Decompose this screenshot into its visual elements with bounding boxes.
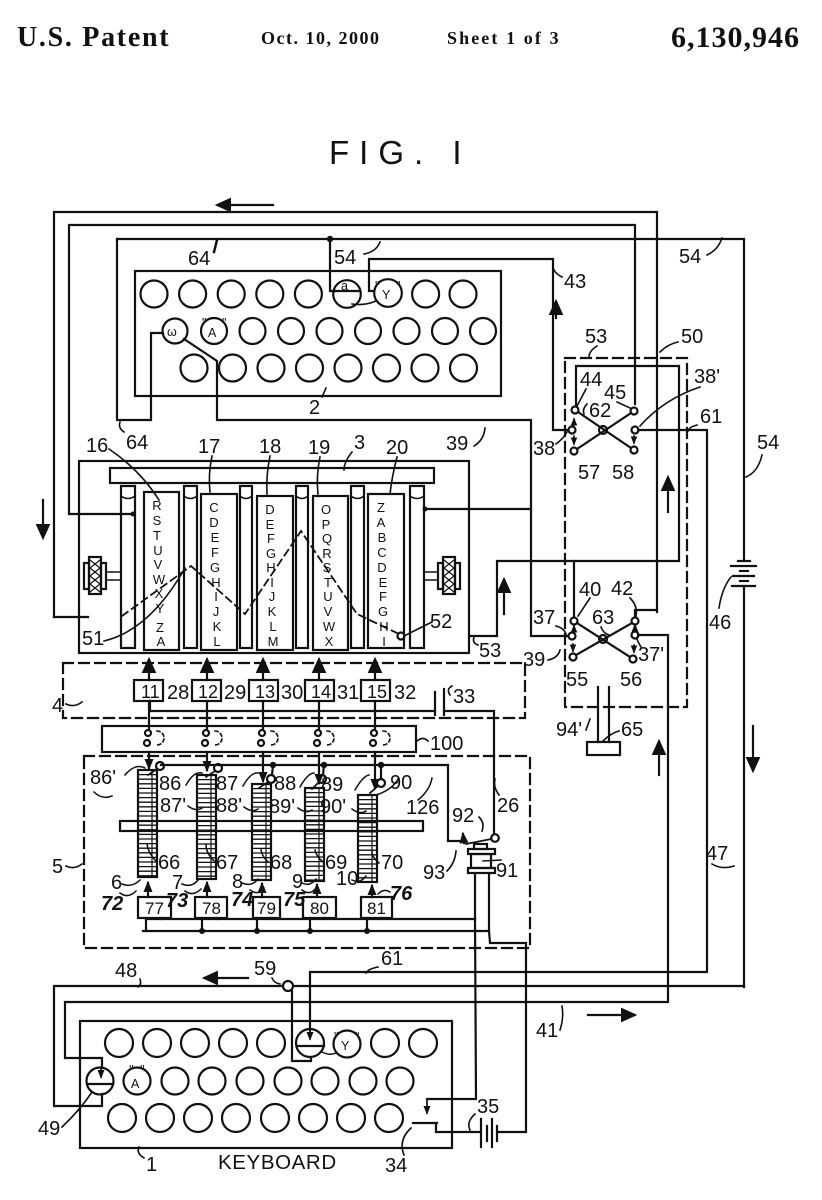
key switch 34 contact bbox=[413, 1122, 437, 1124]
svg-text:Z: Z bbox=[377, 500, 385, 515]
cam wheel 67 bbox=[197, 775, 216, 879]
svg-text:ω: ω bbox=[167, 325, 177, 339]
svg-text:53: 53 bbox=[585, 326, 607, 348]
svg-text:54: 54 bbox=[334, 247, 356, 269]
svg-text:": " bbox=[222, 316, 226, 330]
svg-text:": " bbox=[334, 1030, 338, 1044]
wire: second enclosure box to switch contact 45 bbox=[69, 225, 635, 514]
cam wheel 70 bbox=[358, 795, 377, 882]
key 49 (A key, operated) bbox=[87, 1068, 114, 1095]
label 54 right bbox=[746, 432, 779, 477]
leader squiggles for 6-10 / 72-76 bbox=[122, 876, 390, 894]
svg-text:P: P bbox=[322, 517, 331, 532]
label 50 bbox=[660, 326, 703, 352]
label 61 right bbox=[688, 406, 722, 431]
wire: flow arrow left (keyboard top) bbox=[205, 977, 248, 979]
wire: lower common line bbox=[143, 930, 489, 932]
label 51 bbox=[82, 568, 185, 650]
svg-text:Oct. 10, 2000: Oct. 10, 2000 bbox=[261, 28, 380, 48]
label 5 bbox=[52, 856, 82, 878]
label 40 bbox=[578, 579, 601, 616]
svg-text:M: M bbox=[268, 634, 279, 649]
wire: lamp "a" drop from junction bbox=[330, 239, 335, 291]
svg-text:A: A bbox=[131, 1077, 140, 1091]
svg-text:56: 56 bbox=[620, 669, 642, 691]
svg-text:U: U bbox=[323, 589, 332, 604]
svg-text:E: E bbox=[379, 575, 388, 590]
svg-text:": " bbox=[355, 1030, 359, 1044]
svg-text:H: H bbox=[211, 575, 220, 590]
label 53 lower bbox=[474, 637, 502, 662]
switch 63 bbox=[569, 618, 639, 663]
label 37' bbox=[637, 639, 664, 666]
label 42 bbox=[611, 578, 636, 616]
svg-text:63: 63 bbox=[592, 607, 614, 629]
wire: switch 37' contact to keyboard key 49 bbox=[65, 635, 668, 1068]
svg-text:F: F bbox=[211, 545, 219, 560]
svg-text:5: 5 bbox=[52, 856, 63, 878]
svg-text:44: 44 bbox=[580, 369, 602, 391]
svg-text:68: 68 bbox=[270, 852, 292, 874]
lamps row 1 bbox=[141, 281, 477, 308]
svg-text:7: 7 bbox=[172, 872, 183, 894]
svg-text:U: U bbox=[153, 543, 162, 558]
label 4 bbox=[52, 695, 82, 717]
svg-text:80: 80 bbox=[310, 899, 329, 918]
svg-text:4: 4 bbox=[52, 695, 63, 717]
label 20 bbox=[386, 437, 408, 494]
wire: outer box bottom stub at left bbox=[54, 616, 88, 618]
label 49 bbox=[38, 1092, 92, 1140]
key Y (operated) bbox=[296, 1029, 324, 1057]
svg-text:C: C bbox=[209, 500, 218, 515]
label 41 bbox=[536, 1006, 563, 1042]
label 62 bbox=[583, 400, 611, 422]
svg-text:V: V bbox=[154, 557, 163, 572]
svg-text:38': 38' bbox=[694, 366, 720, 388]
svg-text:G: G bbox=[210, 560, 220, 575]
label 93 bbox=[423, 851, 456, 884]
svg-text:G: G bbox=[266, 546, 276, 561]
label 65 bbox=[603, 719, 643, 741]
svg-text:89: 89 bbox=[321, 774, 343, 796]
label 34 bbox=[385, 1128, 411, 1177]
svg-text:": " bbox=[396, 279, 400, 293]
keys row 1 bbox=[105, 1029, 437, 1057]
dashed box 50 bbox=[565, 358, 687, 707]
svg-text:Q: Q bbox=[322, 531, 332, 546]
svg-text:93: 93 bbox=[423, 862, 445, 884]
svg-text:E: E bbox=[266, 517, 275, 532]
label 61 lower bbox=[366, 948, 403, 973]
rotor assembly box 3 bbox=[79, 461, 469, 653]
axle bar bbox=[120, 821, 423, 831]
wire: second box lower run to rotor 16 contact bbox=[69, 513, 131, 515]
contact box 13 bbox=[249, 680, 278, 702]
label 39 lower bbox=[523, 649, 560, 671]
rotor 18 bbox=[257, 496, 293, 650]
svg-text:42: 42 bbox=[611, 578, 633, 600]
trip box 79 bbox=[253, 897, 280, 918]
svg-text:G: G bbox=[378, 604, 388, 619]
contact box 14 bbox=[305, 680, 334, 702]
right thumb knob bbox=[424, 557, 460, 594]
svg-text:O: O bbox=[321, 502, 331, 517]
svg-text:A: A bbox=[157, 634, 166, 649]
svg-text:K: K bbox=[268, 604, 277, 619]
lamp w (omega) bbox=[163, 319, 188, 344]
svg-text:70: 70 bbox=[381, 852, 403, 874]
svg-text:88: 88 bbox=[274, 773, 296, 795]
lampboard 2 bbox=[135, 271, 501, 396]
svg-text:FIG. I: FIG. I bbox=[329, 134, 472, 171]
svg-text:1: 1 bbox=[146, 1154, 157, 1176]
motor magnet 91 bbox=[468, 844, 501, 931]
wire 48: keyboard common loop bbox=[54, 986, 744, 1106]
svg-text:D: D bbox=[377, 560, 386, 575]
arrows from boxes 11-15 to rotors bbox=[149, 660, 375, 680]
svg-text:A: A bbox=[377, 515, 386, 530]
label 44 bbox=[577, 369, 602, 406]
svg-text:55: 55 bbox=[566, 669, 588, 691]
trip box 81 bbox=[361, 897, 392, 918]
svg-text:76: 76 bbox=[390, 883, 413, 905]
svg-text:31: 31 bbox=[337, 682, 359, 704]
magnet contact 92 bbox=[463, 834, 499, 844]
svg-text:U.S. Patent: U.S. Patent bbox=[17, 22, 170, 53]
keyboard box 1 bbox=[80, 1021, 452, 1148]
wire: up arrow beside bbox=[658, 742, 660, 775]
rotor 20 bbox=[368, 494, 404, 649]
wire: curl from node to Y-key drop bbox=[292, 991, 311, 1061]
wire 54: bus line from lamp panel to right side battery drop bbox=[117, 239, 744, 561]
svg-text:38: 38 bbox=[533, 438, 555, 460]
svg-text:3: 3 bbox=[354, 432, 365, 454]
svg-text:D: D bbox=[209, 515, 218, 530]
svg-text:49: 49 bbox=[38, 1118, 60, 1140]
svg-text:C: C bbox=[377, 545, 386, 560]
svg-text:78: 78 bbox=[202, 899, 221, 918]
switch 62 bbox=[569, 407, 639, 455]
label 47 bbox=[706, 843, 734, 868]
svg-text:30: 30 bbox=[281, 682, 303, 704]
svg-text:37: 37 bbox=[533, 607, 555, 629]
bus bar 100 bbox=[102, 726, 416, 752]
svg-text:6: 6 bbox=[111, 872, 122, 894]
label 26 bbox=[495, 779, 520, 817]
svg-text:K: K bbox=[213, 619, 222, 634]
svg-text:X: X bbox=[325, 634, 334, 649]
svg-text:'': '' bbox=[140, 1063, 145, 1077]
battery 35 bbox=[481, 1119, 497, 1147]
node 59 bbox=[283, 981, 293, 991]
svg-text:90': 90' bbox=[320, 796, 346, 818]
svg-text:X: X bbox=[155, 586, 164, 601]
bold labels 72-76 and 6-10 bbox=[101, 883, 413, 915]
rotor 16 bbox=[144, 492, 179, 650]
label 38 bbox=[533, 432, 567, 460]
svg-text:18: 18 bbox=[259, 436, 281, 458]
wires bus to wheel contacts bbox=[149, 752, 375, 788]
svg-text:59: 59 bbox=[254, 958, 276, 980]
left thumb knob bbox=[84, 557, 121, 594]
label "Y" lamp designation bbox=[352, 279, 402, 307]
contact labels bbox=[90, 767, 439, 819]
flow arrow down, left margin bbox=[42, 500, 44, 537]
svg-text:34: 34 bbox=[385, 1155, 407, 1177]
svg-text:Z: Z bbox=[156, 620, 164, 635]
label 59 bbox=[254, 958, 280, 984]
svg-text:J: J bbox=[269, 589, 276, 604]
svg-text:87': 87' bbox=[160, 795, 186, 817]
label 53 upper bbox=[585, 326, 607, 357]
wire: down arrow beside 47 bbox=[752, 726, 754, 770]
label 64 (lower) bbox=[120, 422, 149, 454]
label 38' bbox=[640, 366, 720, 426]
lamps row 3 bbox=[181, 355, 478, 382]
svg-text:66: 66 bbox=[158, 852, 180, 874]
svg-text:Y: Y bbox=[341, 1039, 350, 1053]
dashed box 4 bbox=[63, 663, 525, 718]
keys row 2 bbox=[162, 1068, 414, 1095]
wire: common rail to key switch 34 bbox=[427, 919, 476, 1099]
lamps row 2 bbox=[240, 318, 497, 344]
wire: common line to key 34 bbox=[146, 918, 475, 920]
label 94' bbox=[556, 719, 590, 741]
junction dots on rail bbox=[270, 762, 384, 768]
label 19 bbox=[308, 437, 330, 494]
svg-text:T: T bbox=[153, 528, 161, 543]
label "A" key designation bbox=[124, 1063, 151, 1095]
svg-text:B: B bbox=[378, 530, 387, 545]
svg-text:72: 72 bbox=[101, 893, 123, 915]
label 64' bbox=[188, 240, 217, 270]
wires below trip boxes bbox=[145, 918, 147, 931]
svg-text:89': 89' bbox=[269, 796, 295, 818]
svg-text:90: 90 bbox=[390, 772, 412, 794]
svg-text:77: 77 bbox=[145, 899, 164, 918]
label 3 bbox=[344, 432, 365, 470]
contact box 11 bbox=[134, 680, 163, 702]
svg-text:65: 65 bbox=[621, 719, 643, 741]
wire 53: rotor box to switch box 62 bbox=[469, 366, 679, 636]
label 39 top bbox=[446, 428, 485, 455]
wire: up arrow on Y wire bbox=[555, 302, 557, 318]
svg-text:F: F bbox=[379, 589, 387, 604]
svg-text:26: 26 bbox=[497, 795, 519, 817]
label 18 bbox=[259, 436, 281, 494]
svg-text:E: E bbox=[211, 530, 220, 545]
dashed signal path through rotors bbox=[122, 531, 399, 634]
svg-text:47: 47 bbox=[706, 843, 728, 865]
dashed box 5 bbox=[84, 756, 530, 948]
svg-text:61: 61 bbox=[700, 406, 722, 428]
wire: outer enclosure box (machine case) to switch contact 42 bbox=[54, 212, 657, 617]
svg-text:L: L bbox=[269, 619, 276, 634]
svg-text:'': '' bbox=[129, 1063, 134, 1077]
svg-text:88': 88' bbox=[216, 795, 242, 817]
label "A" lamp designation bbox=[201, 316, 227, 344]
label 17 bbox=[198, 436, 220, 492]
svg-text:T: T bbox=[324, 575, 332, 590]
label 2 bbox=[309, 388, 326, 419]
svg-text:92: 92 bbox=[452, 805, 474, 827]
svg-text:69: 69 bbox=[325, 852, 347, 874]
svg-text:S: S bbox=[323, 560, 332, 575]
svg-text:28: 28 bbox=[167, 682, 189, 704]
contact box 15 bbox=[361, 680, 390, 702]
svg-text:51: 51 bbox=[82, 628, 104, 650]
svg-text:29: 29 bbox=[224, 682, 246, 704]
lamp a bbox=[333, 279, 361, 308]
svg-text:41: 41 bbox=[536, 1020, 558, 1042]
labels 66-70 (cam wheels) bbox=[158, 852, 403, 874]
trip box 78 bbox=[195, 897, 227, 918]
svg-text:16: 16 bbox=[86, 435, 108, 457]
svg-text:F: F bbox=[267, 531, 275, 546]
svg-text:35: 35 bbox=[477, 1096, 499, 1118]
label "Y" key designation bbox=[322, 1030, 361, 1058]
svg-text:L: L bbox=[213, 634, 220, 649]
label 54 top left bbox=[334, 242, 380, 269]
label 37 bbox=[533, 607, 566, 634]
svg-text:R: R bbox=[322, 546, 331, 561]
label 52 bbox=[404, 611, 452, 636]
svg-text:13: 13 bbox=[255, 682, 275, 702]
svg-text:50: 50 bbox=[681, 326, 703, 348]
label 45 bbox=[604, 382, 630, 408]
svg-text:19: 19 bbox=[308, 437, 330, 459]
svg-text:W: W bbox=[323, 619, 336, 634]
svg-text:64: 64 bbox=[188, 248, 210, 270]
header text bbox=[17, 21, 800, 171]
rotor 17 bbox=[201, 494, 237, 650]
svg-text:Y: Y bbox=[382, 288, 391, 302]
trip box 80 bbox=[303, 897, 336, 918]
svg-text:14: 14 bbox=[311, 682, 331, 702]
svg-text:86: 86 bbox=[159, 773, 181, 795]
wire 61: switch 38' contact to keyboard Y key bbox=[310, 430, 707, 1030]
svg-text:54: 54 bbox=[757, 432, 779, 454]
trip box 77 bbox=[138, 897, 171, 918]
wire: jog into contact 42 bbox=[656, 610, 658, 612]
label 54 top right bbox=[679, 238, 722, 268]
svg-text:43: 43 bbox=[564, 271, 586, 293]
svg-text:D: D bbox=[265, 502, 274, 517]
wire: contact rail to magnet contact 92 bbox=[161, 765, 462, 841]
label 92 bbox=[452, 805, 483, 831]
label 35 bbox=[469, 1096, 499, 1130]
svg-text:J: J bbox=[213, 604, 220, 619]
svg-text:20: 20 bbox=[386, 437, 408, 459]
svg-text:91: 91 bbox=[496, 860, 518, 882]
label 46 bbox=[709, 577, 731, 634]
svg-text:64: 64 bbox=[126, 432, 148, 454]
leader curls for contact labels bbox=[94, 767, 432, 813]
label 1 bbox=[138, 1147, 157, 1176]
wire: lamp "Y" to switch contact 38 bbox=[369, 259, 568, 430]
svg-text:62: 62 bbox=[589, 400, 611, 422]
svg-text:S: S bbox=[153, 513, 162, 528]
svg-text:Sheet 1 of 3: Sheet 1 of 3 bbox=[447, 28, 561, 48]
wire: tap down to switch contact 40 bbox=[573, 561, 575, 617]
wire: flow arrow right (bottom) bbox=[588, 1014, 634, 1016]
svg-text:H: H bbox=[266, 560, 275, 575]
cam wheel 68 bbox=[252, 784, 271, 880]
svg-text:48: 48 bbox=[115, 960, 137, 982]
svg-text:86': 86' bbox=[90, 767, 116, 789]
rotor 19 bbox=[313, 496, 348, 650]
wire: lamp A to switch contact 37 (through rotor area) bbox=[184, 339, 568, 636]
svg-text:R: R bbox=[152, 498, 161, 513]
rotor top bar bbox=[110, 468, 434, 483]
svg-text:100: 100 bbox=[430, 733, 463, 755]
pivot contacts (86..90) bbox=[148, 762, 385, 793]
svg-text:17: 17 bbox=[198, 436, 220, 458]
svg-text:94': 94' bbox=[556, 719, 582, 741]
svg-text:I: I bbox=[382, 634, 386, 649]
svg-text:32: 32 bbox=[394, 682, 416, 704]
svg-text:": " bbox=[375, 279, 379, 293]
wire: flow arrow top left bbox=[218, 204, 273, 206]
svg-text:61: 61 bbox=[381, 948, 403, 970]
svg-text:126: 126 bbox=[406, 797, 439, 819]
svg-text:A: A bbox=[208, 326, 217, 340]
svg-text:87: 87 bbox=[216, 773, 238, 795]
battery 46 on wire 54 bbox=[731, 561, 756, 987]
node: junction dot on wire 54 bbox=[327, 236, 333, 242]
bus sockets bbox=[144, 730, 390, 746]
armature 65 / spring 94' bbox=[587, 687, 620, 755]
svg-text:I: I bbox=[270, 575, 274, 590]
wire: key 34 to battery bbox=[436, 1131, 480, 1133]
svg-text:2: 2 bbox=[309, 397, 320, 419]
svg-text:12: 12 bbox=[198, 682, 218, 702]
svg-text:67: 67 bbox=[216, 852, 238, 874]
svg-text:11: 11 bbox=[141, 682, 160, 702]
capacitor 33 bbox=[435, 689, 444, 715]
svg-text:81: 81 bbox=[367, 899, 386, 918]
label 63 bbox=[592, 607, 614, 635]
svg-text:52: 52 bbox=[430, 611, 452, 633]
svg-text:KEYBOARD: KEYBOARD bbox=[218, 1151, 337, 1174]
svg-text:57: 57 bbox=[578, 462, 600, 484]
svg-text:33: 33 bbox=[453, 686, 475, 708]
wire 64: from wire 54 down and up into lamp bbox=[117, 239, 163, 420]
label 33 bbox=[448, 686, 475, 708]
svg-text:79: 79 bbox=[257, 899, 276, 918]
label 16 bbox=[86, 435, 159, 500]
label 43 bbox=[553, 264, 586, 293]
wire: motor to battery 35 bbox=[489, 931, 526, 1132]
label 100 bbox=[417, 733, 463, 755]
svg-text:6,130,946: 6,130,946 bbox=[671, 21, 800, 54]
svg-text:I: I bbox=[214, 589, 218, 604]
wire: up arrow on wire 53 bbox=[503, 580, 505, 614]
svg-text:": " bbox=[202, 316, 206, 330]
svg-text:54: 54 bbox=[679, 246, 701, 268]
contact box 12 bbox=[192, 680, 221, 702]
svg-text:a: a bbox=[341, 279, 348, 293]
label 48 bbox=[115, 960, 141, 987]
cam wheel 66 bbox=[138, 770, 157, 877]
svg-text:15: 15 bbox=[367, 682, 387, 702]
wire: rotor output to right (junction on lamp-A wire) bbox=[423, 507, 532, 512]
wire 26: capacitor to contact 92 bbox=[444, 711, 494, 833]
stubs boxes 11-15 down to bus bbox=[149, 701, 375, 729]
wire: up arrow between switch wires bbox=[667, 478, 669, 512]
svg-text:46: 46 bbox=[709, 612, 731, 634]
